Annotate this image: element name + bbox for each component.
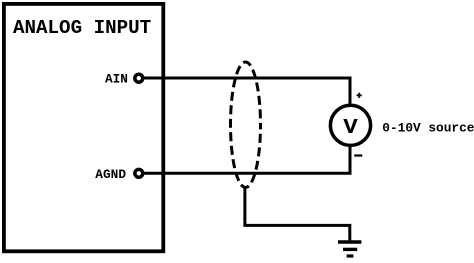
polarity - bbox=[354, 154, 362, 156]
wire AIN to source + bbox=[143, 78, 350, 105]
terminal AGND bbox=[135, 169, 143, 177]
svg-text:ANALOG INPUT: ANALOG INPUT bbox=[13, 17, 151, 39]
svg-text:AGND: AGND bbox=[95, 167, 126, 182]
cable shield (dashed ellipse) bbox=[231, 62, 261, 187]
svg-text:0-10V source: 0-10V source bbox=[382, 121, 474, 136]
voltage source U1 bbox=[330, 105, 370, 145]
wire shield to earth ground bbox=[245, 189, 350, 241]
terminal AIN bbox=[135, 74, 143, 82]
polarity + bbox=[357, 93, 362, 98]
earth ground bbox=[338, 242, 361, 256]
svg-text:AIN: AIN bbox=[105, 72, 128, 87]
svg-text:V: V bbox=[343, 116, 358, 140]
wire AGND to source - bbox=[143, 147, 350, 173]
analog input module box bbox=[4, 4, 163, 251]
